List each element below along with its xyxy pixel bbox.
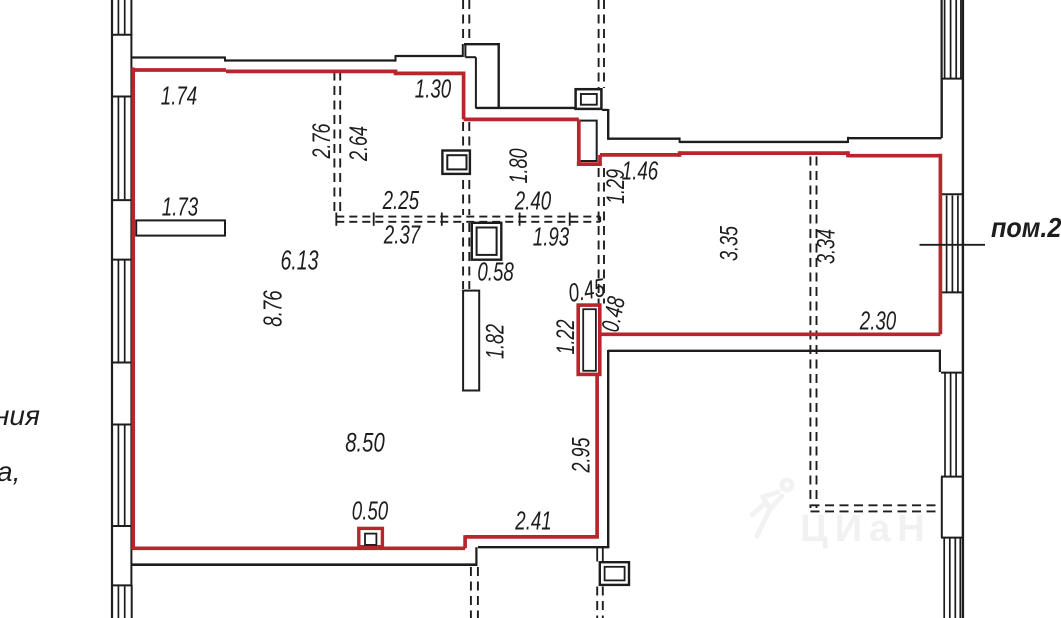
svg-text:1.30: 1.30: [415, 73, 452, 103]
svg-text:ния: ния: [0, 400, 40, 431]
svg-text:8.50: 8.50: [345, 428, 385, 459]
svg-text:2.40: 2.40: [514, 185, 552, 215]
svg-text:8.76: 8.76: [257, 290, 287, 327]
svg-text:ЦИаН: ЦИаН: [800, 508, 932, 550]
svg-text:1.29: 1.29: [601, 169, 630, 204]
svg-text:1.74: 1.74: [161, 80, 197, 110]
svg-text:1.22: 1.22: [551, 319, 580, 354]
svg-text:2.41: 2.41: [514, 505, 551, 535]
svg-text:пом.2: пом.2: [991, 212, 1061, 244]
svg-text:1.73: 1.73: [162, 191, 199, 221]
svg-text:6.13: 6.13: [280, 245, 319, 276]
svg-text:2.95: 2.95: [567, 437, 596, 474]
svg-text:2.30: 2.30: [859, 305, 897, 335]
svg-text:2.64: 2.64: [344, 126, 373, 162]
svg-text:1.80: 1.80: [504, 148, 533, 183]
svg-text:2.76: 2.76: [307, 123, 336, 160]
svg-text:3.35: 3.35: [715, 225, 744, 261]
svg-text:а,: а,: [0, 456, 20, 487]
svg-text:1.82: 1.82: [481, 324, 510, 359]
svg-text:1.93: 1.93: [533, 221, 570, 251]
svg-text:2.25: 2.25: [382, 185, 420, 215]
svg-text:0.58: 0.58: [477, 256, 514, 286]
svg-text:2.37: 2.37: [383, 219, 421, 249]
svg-text:0.50: 0.50: [352, 495, 389, 525]
svg-text:3.34: 3.34: [812, 229, 841, 264]
